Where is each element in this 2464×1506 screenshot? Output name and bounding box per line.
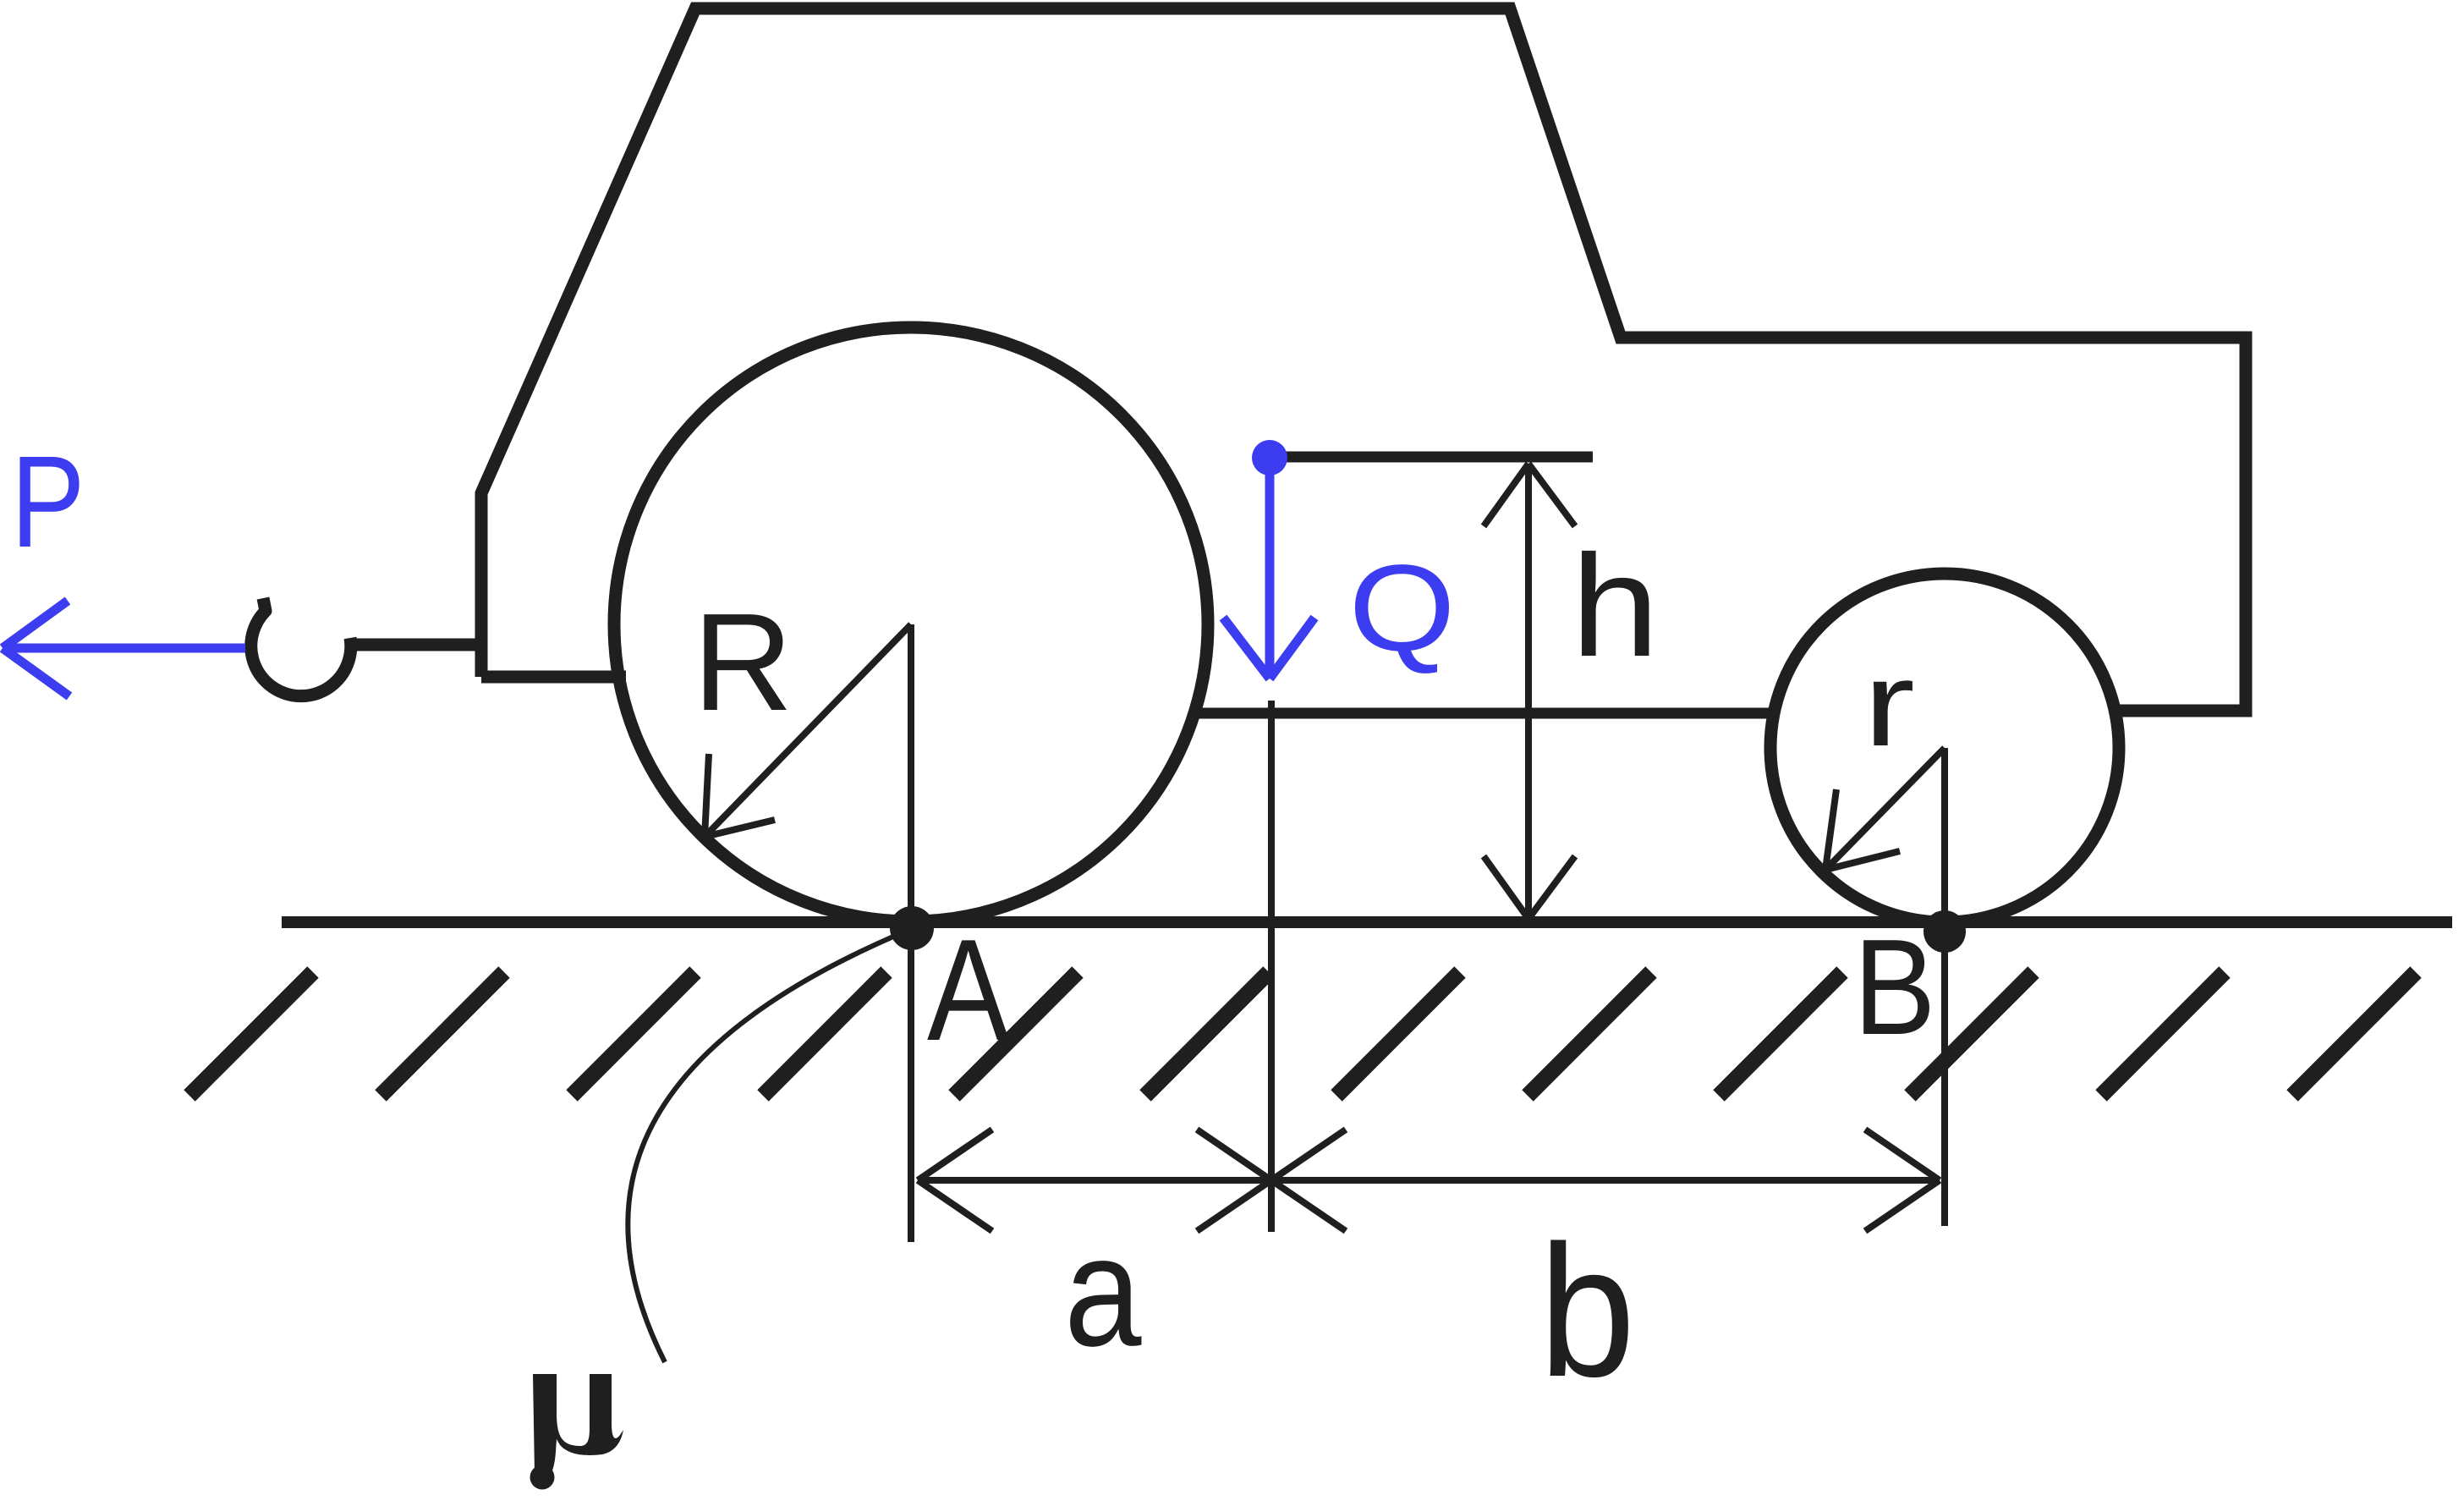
rear wheel (small circle r) [1770, 574, 2119, 922]
a dimension line with arrows [918, 1129, 1271, 1231]
svg-text:A: A [927, 909, 1009, 1071]
force P arrow (blue) [3, 601, 245, 696]
radius R line with arrow [705, 624, 911, 837]
b dimension line with arrows [1271, 1129, 1940, 1231]
vertical radius line A (center to contact and extension down) [908, 624, 914, 1242]
force Q arrow (blue) [1223, 465, 1314, 679]
svg-text:r: r [1863, 636, 1915, 771]
svg-text:R: R [693, 585, 793, 739]
ground line [282, 916, 2452, 928]
svg-text:b: b [1539, 1207, 1635, 1416]
svg-text:a: a [1064, 1204, 1142, 1380]
svg-text:Q: Q [1348, 539, 1455, 677]
svg-text:B: B [1853, 910, 1935, 1063]
label mu [533, 1374, 623, 1474]
front wheel (big circle R) [614, 327, 1208, 921]
mu descender drop [530, 1465, 555, 1490]
vertical radius line B (center to contact and extension down) [1941, 748, 1948, 1226]
svg-text:P: P [11, 429, 85, 574]
contact dot A [890, 906, 934, 950]
Q application vertical line [1268, 701, 1275, 1232]
vehicle body outline [481, 8, 2246, 711]
svg-text:h: h [1571, 525, 1660, 687]
h dimension line with arrows [1484, 464, 1575, 919]
h top reference line [1283, 452, 1593, 463]
chassis axle line between wheels [1194, 708, 1779, 719]
tow hook [251, 598, 351, 696]
ground hatching [189, 972, 2464, 1096]
curved leader line to mu [628, 937, 893, 1362]
Q application blue dot [1252, 440, 1287, 475]
contact dot B [1923, 910, 1966, 953]
tow bar [347, 639, 481, 651]
radius r line with arrow [1825, 748, 1945, 870]
body bottom front segment [481, 671, 626, 684]
